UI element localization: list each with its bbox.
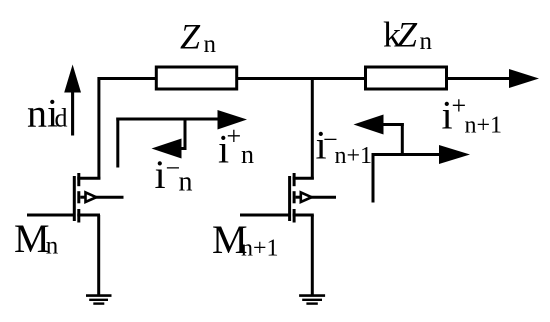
svg-text:n: n bbox=[46, 233, 59, 260]
svg-text:n+1: n+1 bbox=[241, 236, 279, 262]
wire source of M_n to ground bbox=[97, 215, 100, 296]
current arrow i+_n bbox=[116, 118, 220, 168]
label i-_n bbox=[155, 152, 193, 198]
label ni_d bbox=[27, 91, 68, 136]
gate wire M_n+1 bbox=[240, 214, 289, 217]
svg-text:M: M bbox=[14, 216, 50, 261]
label M_n+1 bbox=[212, 217, 279, 262]
ground right bbox=[299, 296, 325, 304]
label i+_n bbox=[218, 122, 254, 172]
svg-text:d: d bbox=[55, 104, 68, 133]
svg-text:i: i bbox=[155, 152, 166, 197]
svg-text:n: n bbox=[420, 28, 433, 55]
label M_n bbox=[14, 216, 59, 261]
svg-text:Z: Z bbox=[397, 15, 418, 55]
svg-text:n+1: n+1 bbox=[335, 143, 373, 169]
svg-text:+: + bbox=[227, 122, 242, 151]
wire source of M_n+1 to ground bbox=[311, 215, 314, 296]
svg-text:Z: Z bbox=[180, 17, 201, 57]
resistor Z_n bbox=[156, 67, 236, 89]
resistor kZ_n bbox=[366, 67, 447, 89]
label kZ_n bbox=[383, 15, 433, 56]
svg-text:n: n bbox=[179, 167, 193, 198]
label i-_n+1 bbox=[316, 123, 373, 170]
svg-text:n: n bbox=[241, 140, 254, 169]
current arrow i+_n+1 bbox=[372, 155, 441, 203]
svg-text:n+1: n+1 bbox=[465, 113, 503, 139]
current arrow i-_n+1 bbox=[382, 123, 404, 156]
gate wire M_n bbox=[27, 214, 74, 217]
label Z_n bbox=[180, 17, 217, 59]
label i+_n+1 bbox=[442, 91, 503, 139]
svg-text:n: n bbox=[204, 31, 217, 58]
output arrowhead bbox=[509, 69, 539, 88]
current arrow i-_n bbox=[178, 119, 187, 149]
current arrow ni_d bbox=[64, 65, 81, 136]
svg-text:ni: ni bbox=[27, 91, 58, 136]
ground left bbox=[86, 296, 112, 304]
transistor M_n bbox=[74, 173, 123, 223]
wire left vertical drop from node A bbox=[97, 77, 100, 180]
transistor M_n+1 bbox=[290, 173, 336, 223]
wire right vertical drop from node B bbox=[311, 77, 314, 180]
wire main horizontal line node A to output bbox=[98, 77, 513, 80]
